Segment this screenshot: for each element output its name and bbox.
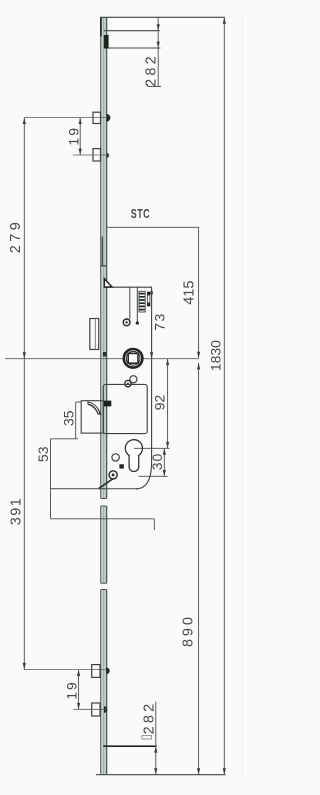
gearbox bottom line — [51, 488, 139, 490]
svg-text:73: 73 — [151, 312, 167, 331]
svg-text:391: 391 — [8, 497, 24, 525]
svg-text:35: 35 — [61, 410, 77, 426]
black sq at hook level — [104, 401, 111, 407]
svg-text:282: 282 — [144, 53, 160, 87]
dim 1830 — [208, 17, 226, 774]
latch bolt triangle — [104, 279, 112, 287]
svg-text:415: 415 — [182, 281, 198, 305]
centerline — [5, 358, 199, 360]
svg-text:1830: 1830 — [208, 340, 224, 371]
dim 35 — [61, 402, 82, 439]
dim 19 bottom — [64, 670, 81, 710]
follower — [124, 349, 143, 368]
euro cylinder — [125, 440, 142, 472]
cylinder centerline ext — [134, 447, 170, 449]
dimension 73 arrows — [150, 288, 167, 359]
top keep box lines — [104, 30, 160, 32]
cam bolt top 1 — [93, 112, 110, 123]
dim 890 — [181, 363, 201, 775]
cam bolt bottom 1 — [92, 665, 110, 678]
diagonal leader — [99, 479, 113, 489]
extension line cam1 — [24, 117, 107, 119]
bottom line — [96, 774, 226, 776]
top screw — [123, 319, 130, 326]
lower joint line — [51, 518, 155, 520]
screw slot on faceplate — [101, 265, 107, 267]
dim 92 — [152, 359, 170, 449]
hook box left — [81, 401, 103, 433]
svg-text:282: 282 — [141, 701, 157, 735]
svg-text:279: 279 — [8, 219, 24, 253]
page edge faint line — [242, 15, 244, 775]
svg-text:53: 53 — [35, 446, 51, 462]
dim 415 — [182, 227, 201, 358]
STC extension line — [107, 226, 199, 228]
svg-text:890: 890 — [181, 614, 197, 647]
extension bottom cam1 — [24, 669, 107, 671]
black fixing sq — [119, 464, 123, 468]
dark tick on bar below side keep — [103, 352, 107, 357]
bottom screw — [109, 471, 117, 479]
hook shape — [87, 401, 101, 415]
thin bar right of spring — [147, 292, 150, 306]
svg-text:19: 19 — [66, 126, 82, 146]
extension bottom cam2 — [74, 708, 107, 710]
extension line cam2 — [73, 154, 107, 156]
bottom keep top line — [103, 745, 156, 747]
side keep box left of bar — [90, 319, 99, 350]
svg-text:19: 19 — [64, 680, 80, 700]
small circle below follower — [130, 376, 137, 383]
small circle left of cylinder — [112, 454, 119, 461]
cam bolt top 2 — [93, 149, 109, 161]
top edge line — [100, 16, 225, 18]
svg-text:STC: STC — [131, 207, 150, 221]
small rect rod end — [142, 736, 152, 739]
dimension 279 / 391 chain line — [8, 118, 26, 670]
svg-text:92: 92 — [152, 395, 168, 411]
dim 282 bottom + box right edge — [141, 701, 157, 775]
dim 30 — [139, 448, 168, 476]
dimension 282 top — [144, 17, 162, 87]
hatched spring rect — [139, 291, 145, 312]
dim 53 — [35, 439, 78, 519]
internal vertical line A — [129, 287, 131, 319]
faceplate edge dark segment — [101, 237, 103, 266]
screw below follower — [125, 380, 131, 386]
deadbolt box — [103, 384, 147, 433]
dimension 19 top — [66, 118, 82, 155]
svg-text:30: 30 — [149, 453, 165, 471]
gearbox top edge — [104, 286, 152, 288]
internal vertical line B — [136, 287, 138, 321]
cam bolt bottom 2 — [92, 703, 108, 716]
shoot bolt black — [104, 35, 109, 49]
gearbox right edge + bottom corner — [136, 287, 152, 489]
faceplate bar — [100, 17, 107, 774]
